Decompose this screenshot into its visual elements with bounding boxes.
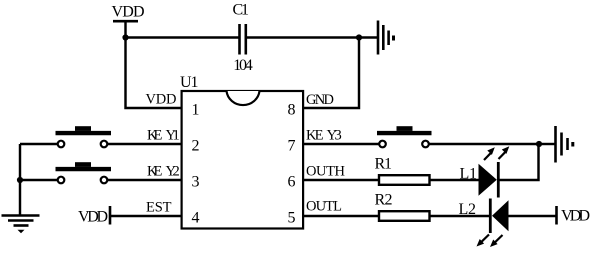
wire S1 to pin 2 bbox=[108, 143, 182, 145]
LED L2 bbox=[459, 199, 509, 248]
ground right bbox=[539, 126, 573, 163]
node left rail junction bbox=[17, 177, 23, 183]
wire VDD to pin 4 bbox=[110, 215, 181, 217]
wire S3 to ground node bbox=[429, 143, 539, 145]
svg-text:KEY2: KEY2 bbox=[147, 164, 180, 180]
node ground rail junction bbox=[356, 34, 362, 40]
wire pin 7 to S3 bbox=[303, 143, 379, 145]
svg-text:1: 1 bbox=[192, 102, 200, 119]
wire L1 to ground node bbox=[499, 145, 539, 180]
IC U1 body bbox=[180, 74, 303, 229]
svg-text:3: 3 bbox=[192, 174, 200, 191]
svg-text:2: 2 bbox=[192, 138, 200, 155]
svg-text:VDD: VDD bbox=[112, 4, 145, 21]
svg-text:8: 8 bbox=[288, 102, 296, 119]
svg-text:4: 4 bbox=[192, 210, 200, 227]
wire VDD rail to C1 bbox=[126, 36, 239, 38]
svg-text:VDD: VDD bbox=[561, 208, 590, 225]
wire L2 to VDD bbox=[509, 215, 556, 217]
ground top-right bbox=[359, 21, 394, 55]
svg-text:VDD: VDD bbox=[146, 92, 177, 108]
wire C1 to ground rail bbox=[246, 36, 359, 38]
pushbutton S3 (KEY3) bbox=[377, 126, 432, 147]
svg-text:6: 6 bbox=[288, 174, 296, 191]
node LED1 ground junction bbox=[536, 141, 542, 147]
svg-text:C1: C1 bbox=[232, 2, 249, 19]
svg-text:GND: GND bbox=[306, 92, 334, 108]
wire left rail vertical bbox=[19, 144, 21, 215]
svg-text:VDD: VDD bbox=[78, 209, 108, 226]
pushbutton S1 (KEY1) bbox=[56, 126, 112, 147]
pushbutton S2 (KEY2) bbox=[56, 162, 112, 183]
svg-text:104: 104 bbox=[233, 57, 253, 74]
resistor R1 bbox=[375, 156, 430, 185]
svg-text:L2: L2 bbox=[459, 201, 477, 218]
svg-text:7: 7 bbox=[288, 138, 296, 155]
LED L1 bbox=[460, 146, 510, 197]
svg-text:L1: L1 bbox=[460, 166, 478, 183]
wire pin 5 to R2 bbox=[303, 215, 379, 217]
resistor R2 bbox=[375, 192, 430, 221]
capacitor C1 bbox=[232, 2, 252, 75]
svg-text:KEY1: KEY1 bbox=[147, 128, 180, 144]
power VDD bottom-left bbox=[78, 206, 110, 226]
wire S2 to pin 3 bbox=[108, 179, 182, 181]
svg-text:R2: R2 bbox=[375, 192, 393, 209]
svg-text:OUTL: OUTL bbox=[306, 199, 342, 215]
wire R2 to L2 bbox=[430, 215, 489, 217]
wire ground rail to pin 8 bbox=[303, 38, 359, 109]
wire pin 6 to R1 bbox=[303, 179, 379, 181]
wire VDD drop to pin 1 bbox=[126, 21, 182, 108]
wire R1 to L1 bbox=[430, 179, 479, 181]
svg-text:R1: R1 bbox=[375, 156, 393, 173]
ground bottom-left bbox=[2, 216, 40, 234]
node VDD rail junction bbox=[122, 34, 128, 40]
svg-text:U1: U1 bbox=[180, 74, 199, 91]
power VDD top bbox=[112, 4, 145, 22]
svg-text:KEY3: KEY3 bbox=[306, 128, 342, 144]
power VDD right bbox=[557, 206, 591, 225]
svg-text:5: 5 bbox=[288, 210, 296, 227]
wire left rail to S2 bbox=[20, 179, 58, 181]
wire left rail to S1 bbox=[20, 143, 58, 145]
svg-text:OUTH: OUTH bbox=[306, 164, 346, 180]
svg-text:EST: EST bbox=[146, 200, 172, 216]
